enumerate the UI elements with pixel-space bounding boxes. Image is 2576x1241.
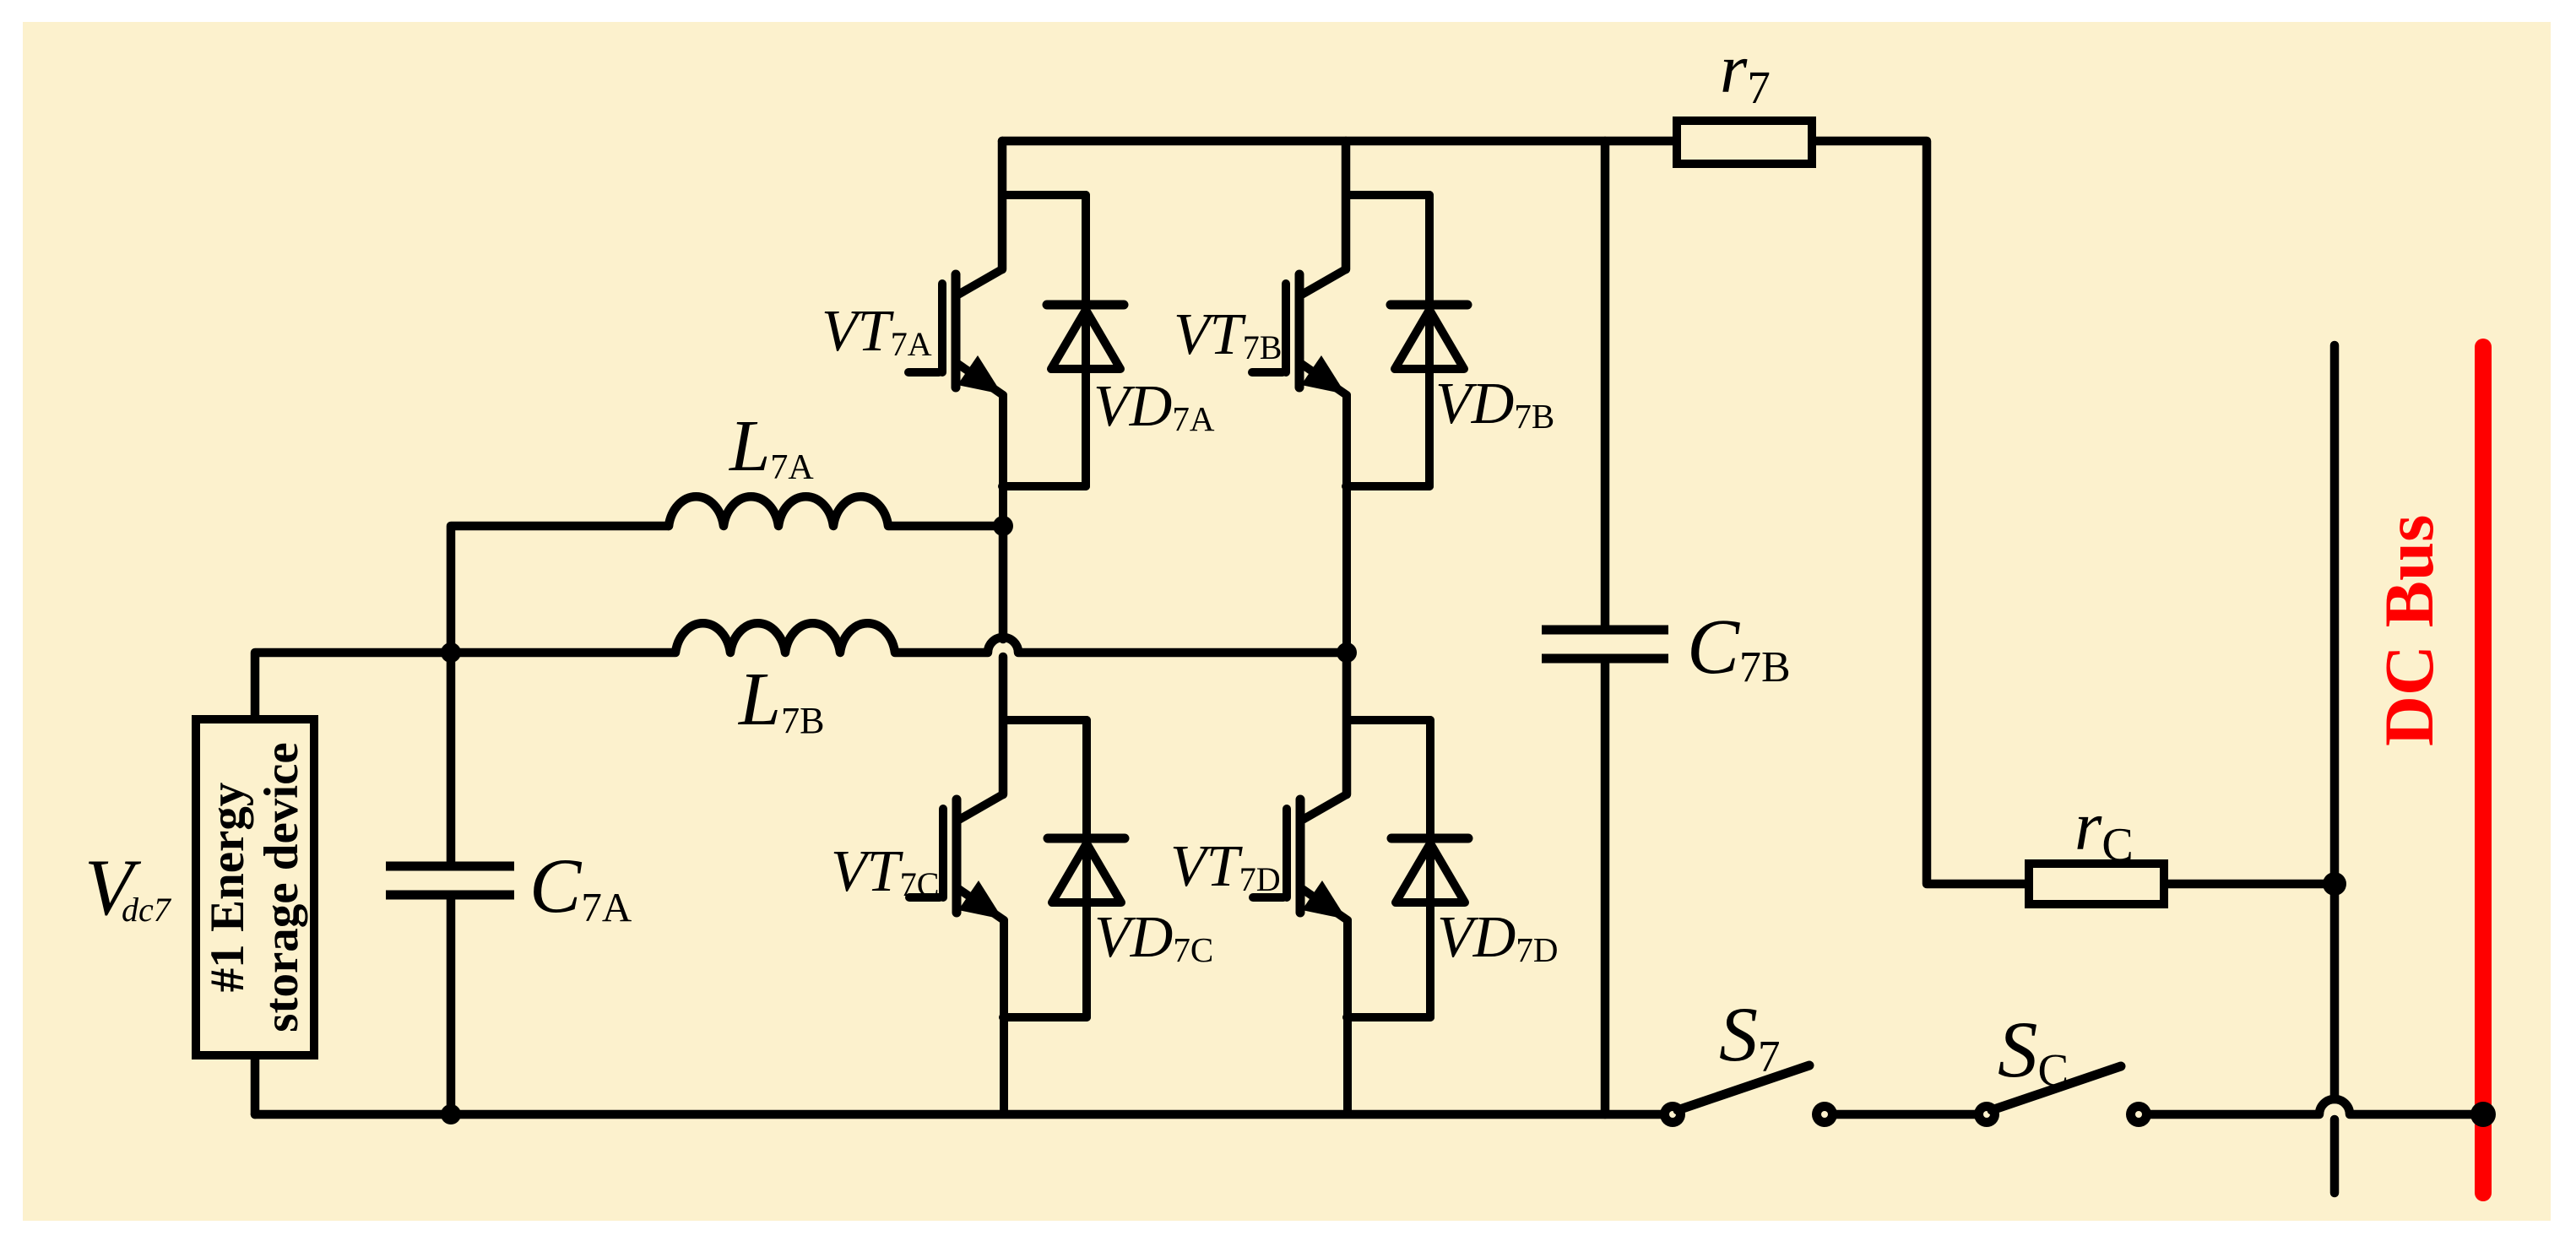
transistor VT7A [908,195,1086,526]
node L7B junction [441,642,461,663]
wire top rail left [1002,137,1673,146]
wire C7B branch upper [1601,141,1610,630]
wire bottom rail left [255,1110,1673,1119]
wire VT7D collector stub [1342,653,1352,794]
transistor VT7B [1252,195,1429,653]
resistor r7 [1677,121,1812,164]
wire energy storage bottom lead [251,1059,260,1114]
inductor L7A [669,496,1003,526]
svg-text:#1 Energy: #1 Energy [201,783,254,993]
capacitor C7B [1542,630,1668,658]
wire bottom rail SC to DC bus with hop [2139,1099,2483,1114]
wire C7A vertical lower [447,895,456,1114]
wire VT7B collector stub [1342,141,1351,269]
DC Bus red bar [2475,347,2492,1193]
node VT7B/VT7D junction [1337,642,1357,663]
diode VD7B [1391,195,1467,486]
svg-text:storage device: storage device [255,742,308,1032]
node rC output junction [2323,872,2346,896]
wire L7A left link [451,526,669,653]
wire C7A vertical upper [447,653,456,866]
node DC bus junction [2470,1102,2496,1127]
wire node A to L7B crossing [999,526,1008,639]
wire rC output [2167,880,2335,889]
wire C7B branch lower [1601,658,1610,1114]
wire DC feeder vertical upper [2330,345,2340,1099]
energy storage device box [196,719,314,1055]
svg-text:DC Bus: DC Bus [2370,515,2448,746]
transistor VT7D [1253,720,1430,1114]
node C7A bottom junction [441,1104,461,1124]
wire top rail right + right corner down [1815,141,2025,884]
capacitor C7A [386,866,514,895]
transistor VT7C [909,720,1087,1114]
wire DC feeder vertical lower [2330,1119,2340,1193]
wire energy storage top lead [255,653,451,716]
diode VD7A [1047,195,1124,486]
switch S7 [1660,1065,1837,1127]
diode VD7D [1391,720,1468,1017]
wire L7B with inductor and hop over vertical [451,623,1347,653]
wire crossing to VT7C collector [999,657,1008,794]
resistor rC [2029,864,2164,904]
switch SC [1974,1066,2151,1127]
wire bottom rail S7 to SC [1825,1110,1987,1119]
wire VT7A collector stub [998,141,1007,269]
node L7A junction [993,516,1013,536]
diode VD7C [1048,720,1125,1017]
